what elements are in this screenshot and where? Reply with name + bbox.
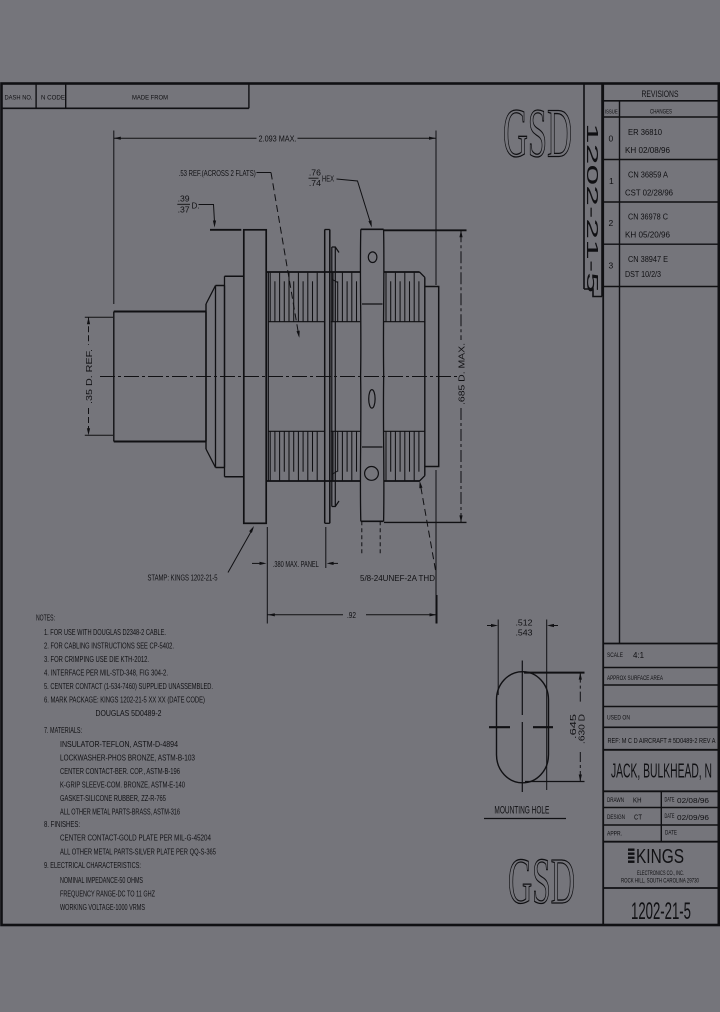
svg-text:3: 3 (609, 261, 614, 271)
svg-text:.543: .543 (516, 628, 533, 638)
hex nut hidden projection dashes (361, 521, 363, 556)
mounting hole dimension .512/.543 (497, 620, 499, 696)
svg-text:NOTES:: NOTES: (36, 613, 55, 623)
svg-text:GSD: GSD (508, 845, 575, 918)
lockwasher (331, 247, 333, 507)
mounting hole shape (497, 672, 549, 783)
thread hatch band A (269, 273, 271, 322)
svg-text:02/08/96: 02/08/96 (677, 796, 709, 805)
svg-text:.380 MAX. PANEL: .380 MAX. PANEL (273, 559, 319, 569)
svg-text:CENTER CONTACT-BER. COP., ASTM: CENTER CONTACT-BER. COP., ASTM-B-196 (60, 766, 180, 776)
svg-text:APPR.: APPR. (607, 832, 622, 838)
svg-text:.37: .37 (178, 205, 190, 215)
svg-text:2.093 MAX.: 2.093 MAX. (259, 134, 297, 144)
svg-text:HEX: HEX (322, 174, 334, 184)
svg-text:DATE: DATE (665, 831, 677, 837)
interface end cap (425, 287, 439, 467)
mounting hole centerlines (521, 661, 523, 716)
hex nut wire hole top (368, 252, 377, 263)
svg-text:CN 36859 A: CN 36859 A (628, 171, 669, 180)
svg-text:5. CENTER CONTACT (1-534-7460): 5. CENTER CONTACT (1-534-7460) SUPPLIED … (44, 681, 213, 691)
svg-text:CHANGES: CHANGES (650, 110, 672, 116)
dimension .685 D MAX (384, 229, 467, 231)
dimension .92 (436, 595, 438, 624)
dimension .380 MAX PANEL (266, 527, 268, 624)
svg-text:1202-21-5: 1202-21-5 (631, 898, 691, 925)
svg-text:KH 05/20/96: KH 05/20/96 (625, 231, 671, 240)
svg-text:ELECTRONICS CO., INC.: ELECTRONICS CO., INC. (637, 871, 684, 877)
svg-text:4:1: 4:1 (633, 651, 645, 660)
svg-text:KH: KH (633, 796, 642, 805)
svg-text:4. INTERFACE PER MIL-STD-348,: 4. INTERFACE PER MIL-STD-348, FIG 304-2. (44, 667, 168, 677)
svg-text:.685 D. MAX.: .685 D. MAX. (457, 343, 467, 405)
svg-text:.76: .76 (309, 168, 321, 178)
svg-text:.35 D. REF.: .35 D. REF. (84, 349, 94, 404)
svg-text:JACK, BULKHEAD, N: JACK, BULKHEAD, N (611, 760, 712, 783)
svg-text:N CODE: N CODE (41, 95, 65, 102)
dimension .35 D REF (85, 316, 113, 318)
threaded body outline (266, 271, 360, 273)
svg-text:CT: CT (634, 813, 642, 822)
svg-text:CN 36978 C: CN 36978 C (628, 213, 668, 222)
svg-text:6. MARK PACKAGE: KINGS 1202-21: 6. MARK PACKAGE: KINGS 1202-21-5 XX XX (… (44, 694, 205, 704)
svg-text:SCALE: SCALE (607, 653, 623, 659)
svg-text:2. FOR CABLING INSTRUCTIONS SE: 2. FOR CABLING INSTRUCTIONS SEE CP-5402. (44, 640, 174, 650)
svg-text:.39: .39 (178, 194, 190, 204)
svg-text:FREQUENCY RANGE-DC TO 11 GHZ: FREQUENCY RANGE-DC TO 11 GHZ (60, 889, 155, 899)
svg-text:INSULATOR-TEFLON, ASTM-D-4894: INSULATOR-TEFLON, ASTM-D-4894 (60, 739, 178, 749)
drawing number strip border (583, 84, 585, 290)
svg-text:.53 REF.(ACROSS 2 FLATS): .53 REF.(ACROSS 2 FLATS) (179, 168, 256, 178)
svg-text:KH 02/08/96: KH 02/08/96 (625, 146, 671, 155)
svg-text:NOMINAL IMPEDANCE-50 OHMS: NOMINAL IMPEDANCE-50 OHMS (60, 875, 143, 885)
svg-text:DASH NO.: DASH NO. (5, 95, 33, 102)
svg-text:CENTER CONTACT-GOLD PLATE PER: CENTER CONTACT-GOLD PLATE PER MIL-G-4520… (60, 833, 211, 843)
svg-text:DESIGN: DESIGN (607, 815, 625, 821)
mounting flange (244, 230, 266, 524)
dimension 2.093 MAX (113, 131, 115, 305)
svg-text:ER 36810: ER 36810 (628, 128, 663, 137)
svg-text:.512: .512 (516, 618, 533, 628)
k-grip sleeve cone (205, 304, 207, 449)
sleeve ring (215, 286, 217, 468)
svg-text:D.: D. (192, 201, 200, 211)
svg-text:LOCKWASHER-PHOS BRONZE, ASTM-B: LOCKWASHER-PHOS BRONZE, ASTM-B-103 (60, 753, 195, 763)
svg-text:CN 38947 E: CN 38947 E (628, 255, 668, 264)
svg-text:KINGS: KINGS (636, 845, 684, 868)
svg-text:7. MATERIALS:: 7. MATERIALS: (44, 725, 82, 735)
svg-text:GSD: GSD (503, 96, 572, 173)
svg-text:DST 10/2/3: DST 10/2/3 (625, 270, 661, 279)
thread minor diameter lines (268, 321, 324, 323)
thread hatch band B (332, 273, 334, 322)
svg-text:REVISIONS: REVISIONS (642, 89, 679, 100)
centerline main axis (100, 376, 458, 378)
svg-text:8. FINISHES:: 8. FINISHES: (44, 819, 80, 829)
svg-text:.74: .74 (309, 178, 321, 188)
svg-text:MOUNTING HOLE: MOUNTING HOLE (494, 805, 549, 817)
svg-text:DOUGLAS 5D0489-2: DOUGLAS 5D0489-2 (96, 708, 162, 718)
hex nut wire hole bottom (365, 467, 379, 481)
svg-text:1. FOR USE WITH DOUGLAS D2348-: 1. FOR USE WITH DOUGLAS D2348-2 CABLE. (44, 627, 166, 637)
svg-text:1: 1 (609, 176, 614, 186)
title block grid (603, 643, 719, 645)
svg-text:K-GRIP SLEEVE-COM. BRONZE, AST: K-GRIP SLEEVE-COM. BRONZE, ASTM-E-140 (60, 780, 185, 790)
dash-no table top-left (2, 107, 249, 109)
svg-text:DRAWN: DRAWN (607, 798, 624, 804)
thread hatch band C (385, 273, 387, 322)
svg-text:APPROX SURFACE AREA: APPROX SURFACE AREA (607, 676, 663, 682)
svg-text:CST 02/28/96: CST 02/28/96 (625, 189, 674, 198)
svg-text:.630 D: .630 D (577, 714, 587, 744)
svg-text:1202-21-5: 1202-21-5 (583, 123, 600, 293)
svg-text:DATE: DATE (665, 798, 675, 804)
bulkhead panel (324, 230, 326, 524)
svg-text:.92: .92 (347, 610, 356, 620)
svg-text:2: 2 (609, 218, 614, 228)
svg-text:5/8-24UNEF-2A THD: 5/8-24UNEF-2A THD (360, 573, 435, 583)
hex jam nut (359, 229, 361, 521)
svg-text:ALL OTHER METAL PARTS-BRASS, A: ALL OTHER METAL PARTS-BRASS, ASTM-316 (60, 807, 180, 817)
svg-text:ISSUE: ISSUE (605, 110, 618, 116)
svg-text:9. ELECTRICAL CHARACTERISTICS:: 9. ELECTRICAL CHARACTERISTICS: (44, 860, 141, 870)
svg-text:3. FOR CRIMPING USE DIE KTH-20: 3. FOR CRIMPING USE DIE KTH-2012. (44, 654, 149, 664)
svg-text:ALL OTHER METAL PARTS-SILVER P: ALL OTHER METAL PARTS-SILVER PLATE PER Q… (60, 847, 216, 857)
kings logo bars (628, 849, 635, 851)
svg-text:0: 0 (609, 134, 614, 144)
svg-text:WORKING VOLTAGE-1000 VRMS: WORKING VOLTAGE-1000 VRMS (60, 902, 145, 912)
gasket ring (224, 276, 226, 476)
svg-text:GASKET-SILICONE RUBBER, ZZ-R-7: GASKET-SILICONE RUBBER, ZZ-R-765 (60, 793, 166, 803)
svg-text:USED ON: USED ON (607, 716, 630, 722)
svg-text:REF: M C D AIRCRAFT # 5D0489-: REF: M C D AIRCRAFT # 5D0489-2 REV A (608, 736, 716, 745)
cable entry cylinder (114, 312, 206, 442)
revisions table grid (602, 84, 604, 926)
svg-text:ROCK HILL, SOUTH CAROLINA 2973: ROCK HILL, SOUTH CAROLINA 29730 (621, 879, 699, 885)
svg-text:DATE: DATE (665, 814, 675, 820)
hex nut slot middle (369, 390, 375, 409)
mounting hole dimension .645/.630 D (524, 672, 585, 674)
svg-text:MADE FROM: MADE FROM (132, 95, 168, 102)
svg-text:STAMP: KINGS 1202-21-5: STAMP: KINGS 1202-21-5 (148, 573, 218, 583)
svg-text:02/09/96: 02/09/96 (677, 813, 709, 822)
